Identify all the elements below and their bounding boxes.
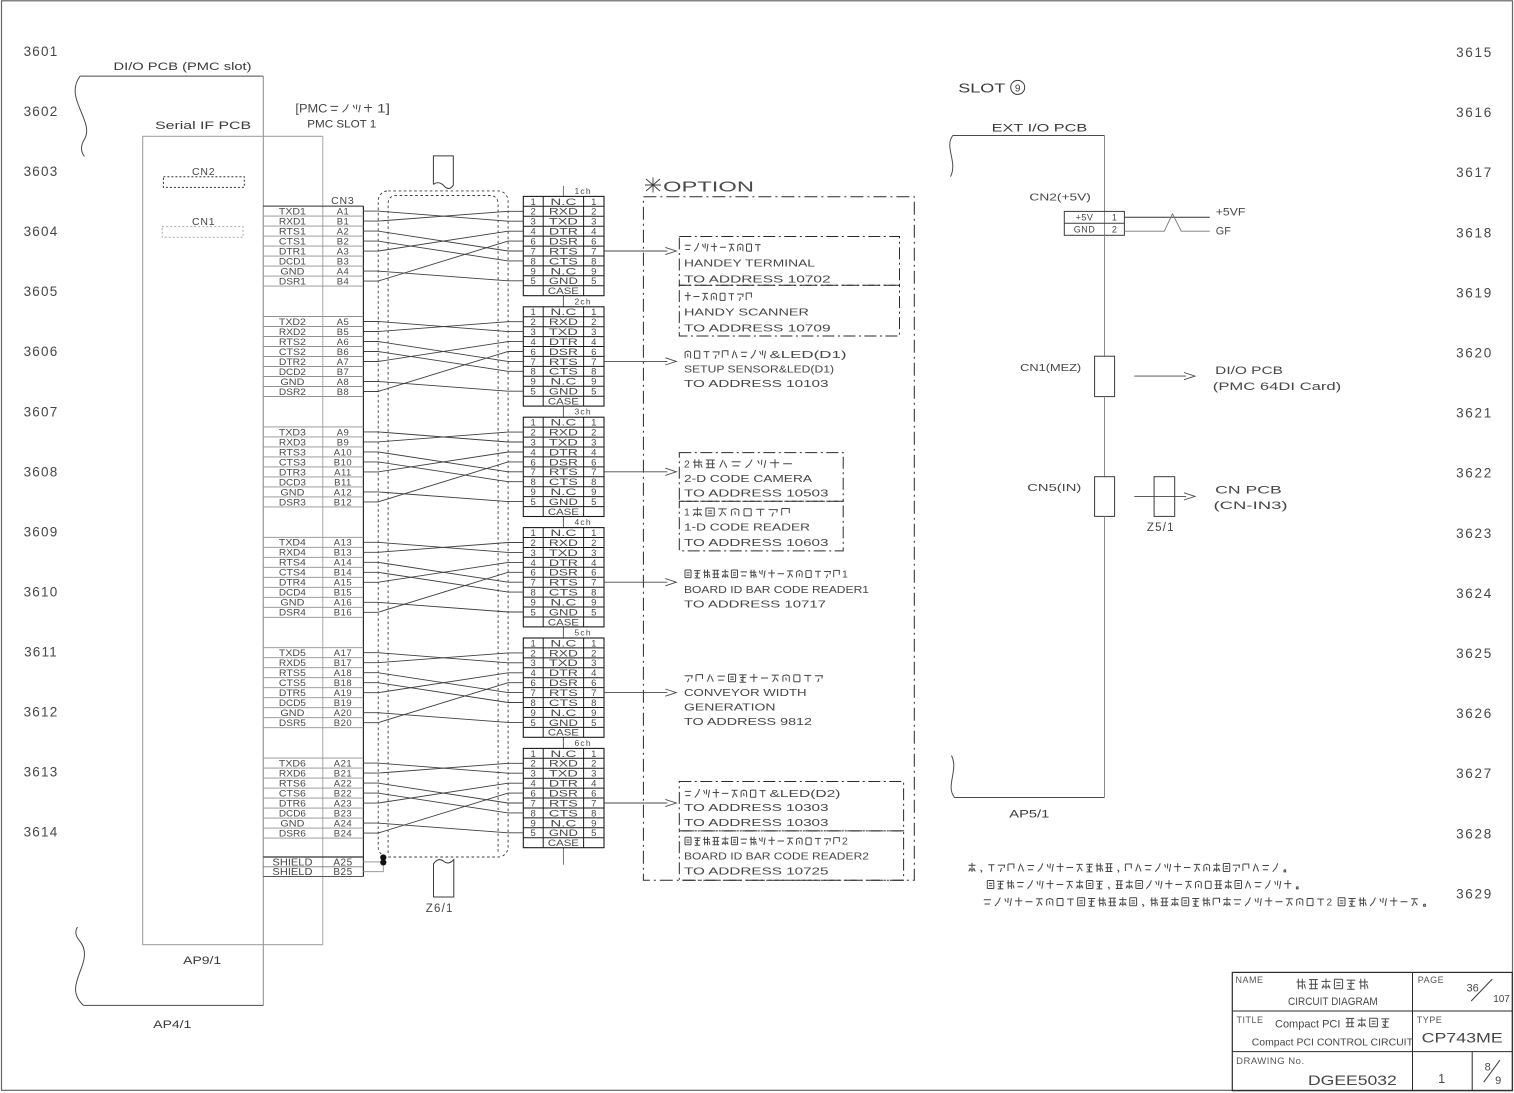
svg-text:3620: 3620 <box>1456 346 1493 361</box>
wire DTR6 to 6ch pin 4 <box>363 783 523 803</box>
svg-text:2: 2 <box>684 458 690 470</box>
svg-text:1: 1 <box>1438 1072 1445 1086</box>
wire TXD5 to 5ch pin 3 <box>363 653 523 663</box>
svg-text:2: 2 <box>1112 224 1117 234</box>
svg-text:+5V: +5V <box>1076 213 1094 223</box>
svg-text:B12: B12 <box>334 497 352 508</box>
option label SETUP SENSOR&LED(D1) (address 10103) <box>684 349 847 390</box>
wire GND to 3ch pin 5 <box>363 492 523 502</box>
svg-text:SLOT: SLOT <box>958 82 1006 96</box>
svg-text:5: 5 <box>591 387 596 398</box>
svg-text:&LED(D1): &LED(D1) <box>770 349 847 361</box>
svg-text:3603: 3603 <box>24 164 59 179</box>
svg-text:3623: 3623 <box>1456 526 1493 541</box>
svg-text:DSR6: DSR6 <box>279 829 306 840</box>
svg-text:HANDEY TERMINAL: HANDEY TERMINAL <box>684 258 815 270</box>
wire RXD2 to 2ch pin 2 <box>363 322 523 332</box>
wire CTS2 to 2ch pin 8 <box>363 352 523 372</box>
connector CN2(+5V) on EXT I/O PCB <box>1029 192 1124 236</box>
svg-text:DSR3: DSR3 <box>279 497 306 508</box>
wire RXD4 to 4ch pin 2 <box>363 543 523 553</box>
svg-text:5: 5 <box>531 276 536 287</box>
svg-text:3622: 3622 <box>1456 466 1493 481</box>
svg-text:3608: 3608 <box>24 464 59 479</box>
title block TITLE cell: Compact PCI CONTROL CIRCUIT <box>1237 1015 1414 1048</box>
svg-text:3614: 3614 <box>24 825 59 840</box>
svg-text:3617: 3617 <box>1456 165 1493 180</box>
wire DTR2 to 2ch pin 4 <box>363 342 523 362</box>
svg-text:Z6/1: Z6/1 <box>426 903 454 915</box>
svg-text:3609: 3609 <box>24 524 59 539</box>
cable bundle (dashed) between CN3 and channel connectors <box>378 191 508 857</box>
connector 6ch (D-sub 9pin) <box>523 738 604 865</box>
ferrite Z5/1 <box>1147 477 1175 534</box>
connector CN1 (Serial IF PCB) <box>162 216 243 237</box>
wire DSR1 to 1ch pin 6 <box>363 241 523 281</box>
option box HANDEY TERMINAL (address 10702) <box>679 237 899 286</box>
board EXT I/O PCB outline AP5/1 <box>950 123 1105 821</box>
board DI/O PCB (PMC slot) outline AP4/1 <box>75 61 263 1031</box>
svg-text:OPTION: OPTION <box>663 179 754 196</box>
label CN PCB (CN-IN3) <box>1214 484 1288 512</box>
svg-text:TO ADDRESS 10725: TO ADDRESS 10725 <box>684 866 829 878</box>
svg-text:1: 1 <box>1112 213 1117 223</box>
svg-text:TO ADDRESS 10503: TO ADDRESS 10503 <box>684 488 829 500</box>
svg-text:1]: 1] <box>377 104 390 116</box>
svg-text:3607: 3607 <box>24 404 59 419</box>
wire 2ch to option (arrow) <box>604 358 676 365</box>
svg-text:Z5/1: Z5/1 <box>1147 522 1175 534</box>
svg-text:3616: 3616 <box>1456 105 1493 120</box>
svg-text:TO ADDRESS 10702: TO ADDRESS 10702 <box>684 274 831 286</box>
svg-text:CN2(+5V): CN2(+5V) <box>1029 192 1091 204</box>
svg-text:5: 5 <box>531 718 536 729</box>
svg-text:Compact PCI: Compact PCI <box>1275 1019 1340 1031</box>
title block PAGE cell: 36/107 <box>1418 975 1511 1005</box>
wire DTR5 to 5ch pin 4 <box>363 673 523 693</box>
wire DTR3 to 3ch pin 4 <box>363 452 523 472</box>
wire DTR1 to 1ch pin 4 <box>363 231 523 251</box>
svg-text:DI/O PCB (PMC slot): DI/O PCB (PMC slot) <box>114 61 252 73</box>
svg-text:5: 5 <box>591 276 596 287</box>
wire 1ch to option (arrow) <box>604 247 676 254</box>
svg-text:3604: 3604 <box>24 224 59 239</box>
wire DSR3 to 3ch pin 6 <box>363 462 523 502</box>
svg-text:TYPE: TYPE <box>1417 1015 1443 1025</box>
CN3 pin rows groups 1-6 (TXD/RXD/RTS/CTS/DTR/DCD/GND/DSR, pins A1-B24) <box>263 207 363 840</box>
wire DSR6 to 6ch pin 6 <box>363 793 523 833</box>
svg-text:DSR2: DSR2 <box>279 387 306 398</box>
wire CTS6 to 6ch pin 8 <box>363 793 523 813</box>
wire 4ch to option (arrow) <box>604 579 676 586</box>
svg-text:5: 5 <box>531 497 536 508</box>
svg-text:DI/O PCB: DI/O PCB <box>1215 365 1283 377</box>
svg-text:3626: 3626 <box>1456 706 1493 721</box>
connector 3ch (D-sub 9pin) <box>523 407 604 528</box>
zone number column left 3601-3614 <box>24 44 59 840</box>
wire TXD1 to 1ch pin 3 <box>363 211 523 221</box>
svg-text:DSR5: DSR5 <box>279 718 306 729</box>
svg-text:3615: 3615 <box>1456 45 1493 60</box>
svg-text:2-D CODE CAMERA: 2-D CODE CAMERA <box>684 473 812 485</box>
label DI/O PCB (PMC 64DI Card) <box>1213 365 1341 393</box>
svg-text:B4: B4 <box>337 277 350 288</box>
wire arrow CN5 to CN PCB <box>1134 493 1195 500</box>
wire GND to 6ch pin 5 <box>363 823 523 833</box>
label PMC SLOT 1 <box>295 104 390 131</box>
svg-text:2ch: 2ch <box>575 296 592 306</box>
label SLOT 9 <box>958 80 1024 95</box>
svg-text:+5VF: +5VF <box>1216 206 1246 218</box>
bus segment CN5-bottom <box>1104 516 1106 797</box>
connector CN5(IN) <box>1027 477 1114 517</box>
option box 1-D CODE READER (address 10603) <box>679 501 843 551</box>
svg-text:6ch: 6ch <box>575 738 592 748</box>
OPTION group box (dash-dot) <box>643 178 914 881</box>
svg-text:DSR1: DSR1 <box>279 277 306 288</box>
title block <box>1232 972 1512 1090</box>
wire TXD6 to 6ch pin 3 <box>363 763 523 773</box>
svg-text:5: 5 <box>531 387 536 398</box>
wire GND to 4ch pin 5 <box>363 602 523 612</box>
svg-text:TO ADDRESS 9812: TO ADDRESS 9812 <box>684 716 812 728</box>
svg-text:4ch: 4ch <box>575 517 592 527</box>
svg-text:5: 5 <box>531 607 536 618</box>
svg-text:107: 107 <box>1493 994 1510 1005</box>
svg-text:3610: 3610 <box>24 584 59 599</box>
wire SHIELD B25 to cable shield <box>363 862 383 872</box>
svg-text:HANDY SCANNER: HANDY SCANNER <box>684 307 810 319</box>
wire 6ch to option (arrow) <box>604 799 676 806</box>
svg-text:CIRCUIT DIAGRAM: CIRCUIT DIAGRAM <box>1288 996 1378 1008</box>
svg-text:3619: 3619 <box>1456 285 1493 300</box>
svg-text:BOARD ID BAR CODE READER2: BOARD ID BAR CODE READER2 <box>684 851 869 863</box>
svg-text:1ch: 1ch <box>575 186 592 196</box>
connector CN2 (Serial IF PCB) <box>163 166 244 187</box>
wire CTS5 to 5ch pin 8 <box>363 683 523 703</box>
svg-text:2: 2 <box>842 836 848 848</box>
wire GND pin2 to GF with fuse/filter symbol <box>1124 214 1209 231</box>
option label BOARD ID BAR CODE READER1 (address 10717) <box>684 568 869 610</box>
svg-text:Compact PCI CONTROL CIRCUIT: Compact PCI CONTROL CIRCUIT <box>1252 1036 1414 1048</box>
board Serial IF PCB AP9/1 <box>143 120 323 967</box>
cable sheet symbol top <box>433 156 453 189</box>
connector CN1(MEZ) <box>1020 356 1114 396</box>
svg-text:9: 9 <box>1015 83 1021 94</box>
wire 5ch to option (arrow) <box>604 689 676 696</box>
svg-text:36: 36 <box>1467 983 1479 995</box>
wire GND to 1ch pin 5 <box>363 271 523 281</box>
title block DRAWING No. cell: DGEE5032 <box>1236 1056 1397 1088</box>
svg-text:B8: B8 <box>337 387 350 398</box>
svg-text:TO ADDRESS 10303: TO ADDRESS 10303 <box>684 817 829 829</box>
wire arrow CN1 to DI/O PCB <box>1134 373 1195 380</box>
svg-text:5: 5 <box>591 718 596 729</box>
wire DTR4 to 4ch pin 4 <box>363 562 523 582</box>
wire TXD3 to 3ch pin 3 <box>363 432 523 442</box>
svg-text:1: 1 <box>684 507 690 519</box>
svg-text:B25: B25 <box>333 867 352 878</box>
wire RTS3 to 3ch pin 7 <box>363 452 523 472</box>
wire DSR5 to 5ch pin 6 <box>363 683 523 723</box>
wire CTS3 to 3ch pin 8 <box>363 462 523 482</box>
wire GND to 5ch pin 5 <box>363 713 523 723</box>
EXT I/O PCB internal bus line <box>1104 235 1106 356</box>
option box SETUP SENSOR&LED(D2) (address 10303) <box>679 782 903 831</box>
title block sheet cell: 8/9 <box>1484 1060 1502 1087</box>
option box HANDY SCANNER (address 10709) <box>679 285 899 336</box>
title block NAME cell: CIRCUIT DIAGRAM <box>1236 975 1378 1008</box>
svg-text:1: 1 <box>842 568 848 580</box>
svg-text:3611: 3611 <box>24 645 58 660</box>
svg-text:5: 5 <box>531 828 536 839</box>
svg-text:3602: 3602 <box>24 104 59 119</box>
svg-text:3625: 3625 <box>1456 646 1493 661</box>
svg-text:9: 9 <box>1495 1075 1501 1087</box>
svg-text:CN PCB: CN PCB <box>1215 484 1282 496</box>
svg-text:CN5(IN): CN5(IN) <box>1027 482 1081 494</box>
svg-text:5ch: 5ch <box>575 628 592 638</box>
svg-text:3629: 3629 <box>1456 886 1493 901</box>
svg-text:3621: 3621 <box>1456 406 1493 421</box>
svg-text:DRAWING No.: DRAWING No. <box>1236 1056 1304 1067</box>
svg-text:&LED(D2): &LED(D2) <box>770 788 841 800</box>
svg-text:(PMC 64DI Card): (PMC 64DI Card) <box>1213 381 1341 393</box>
wire RXD6 to 6ch pin 2 <box>363 763 523 773</box>
svg-text:PMC SLOT 1: PMC SLOT 1 <box>307 119 376 131</box>
wire RTS1 to 1ch pin 7 <box>363 231 523 251</box>
svg-text:PAGE: PAGE <box>1418 975 1444 985</box>
option label CONVEYOR WIDTH GENERATION (address 9812) <box>684 674 822 728</box>
svg-text:3618: 3618 <box>1456 225 1493 240</box>
wire RTS4 to 4ch pin 7 <box>363 562 523 582</box>
svg-text:8: 8 <box>1485 1061 1491 1073</box>
svg-text:DSR4: DSR4 <box>279 608 306 619</box>
svg-text:3613: 3613 <box>24 765 59 780</box>
wire DSR4 to 4ch pin 6 <box>363 572 523 612</box>
option box 2-D CODE CAMERA (address 10503) <box>679 453 843 502</box>
svg-text:3ch: 3ch <box>575 407 592 417</box>
junction dots cable shield <box>380 854 386 860</box>
cable sheet symbol bottom Z6/1 <box>426 860 454 916</box>
wire DSR2 to 2ch pin 6 <box>363 352 523 392</box>
wire +5V pin1 to +5VF <box>1124 216 1209 218</box>
connector 5ch (D-sub 9pin) <box>523 628 604 749</box>
wire CTS1 to 1ch pin 8 <box>363 241 523 261</box>
svg-text:NAME: NAME <box>1236 975 1264 985</box>
svg-text:BOARD ID BAR CODE READER1: BOARD ID BAR CODE READER1 <box>684 584 869 596</box>
connector 2ch (D-sub 9pin) <box>523 296 604 417</box>
wire RTS2 to 2ch pin 7 <box>363 342 523 362</box>
svg-text:3606: 3606 <box>24 344 59 359</box>
wire RXD3 to 3ch pin 2 <box>363 432 523 442</box>
svg-text:TO ADDRESS 10303: TO ADDRESS 10303 <box>684 802 829 814</box>
svg-text:3605: 3605 <box>24 284 59 299</box>
svg-text:CN1(MEZ): CN1(MEZ) <box>1020 362 1081 374</box>
svg-text:5: 5 <box>591 607 596 618</box>
svg-text:CONVEYOR WIDTH: CONVEYOR WIDTH <box>684 687 807 699</box>
connector 1ch (D-sub 9pin) <box>523 186 604 307</box>
svg-text:(CN-IN3): (CN-IN3) <box>1214 500 1288 512</box>
svg-text:B24: B24 <box>334 829 352 840</box>
CN3 SHIELD pins A25 B25 <box>263 857 363 878</box>
wire TXD4 to 4ch pin 3 <box>363 542 523 552</box>
svg-text:[PMC: [PMC <box>295 104 327 116</box>
svg-text:TO ADDRESS 10103: TO ADDRESS 10103 <box>684 378 829 390</box>
svg-text:SETUP SENSOR&LED(D1): SETUP SENSOR&LED(D1) <box>684 363 834 375</box>
connector 4ch (D-sub 9pin) <box>523 517 604 638</box>
svg-text:EXT I/O PCB: EXT I/O PCB <box>992 123 1088 135</box>
wire RXD1 to 1ch pin 2 <box>363 211 523 221</box>
svg-text:TO ADDRESS 10709: TO ADDRESS 10709 <box>684 323 831 335</box>
svg-text:DGEE5032: DGEE5032 <box>1308 1072 1397 1088</box>
svg-text:GF: GF <box>1216 226 1231 238</box>
svg-text:1-D CODE READER: 1-D CODE READER <box>684 522 811 534</box>
svg-text:SHIELD: SHIELD <box>272 867 312 878</box>
wire TXD2 to 2ch pin 3 <box>363 322 523 332</box>
option box BOARD ID BAR CODE READER2 (address 10725) <box>679 831 903 880</box>
svg-text:Serial IF PCB: Serial IF PCB <box>155 120 251 132</box>
svg-text:3601: 3601 <box>24 44 59 59</box>
svg-text:3624: 3624 <box>1456 586 1493 601</box>
svg-text:5: 5 <box>591 828 596 839</box>
svg-text:B16: B16 <box>334 608 352 619</box>
svg-text:TO ADDRESS 10603: TO ADDRESS 10603 <box>684 537 829 549</box>
svg-text:AP4/1: AP4/1 <box>153 1019 191 1031</box>
svg-text:TO ADDRESS 10717: TO ADDRESS 10717 <box>684 599 826 611</box>
svg-text:3628: 3628 <box>1456 826 1493 841</box>
wire 3ch to option (arrow) <box>604 468 676 475</box>
svg-text:CASE: CASE <box>548 838 579 849</box>
wire RTS5 to 5ch pin 7 <box>363 673 523 693</box>
svg-text:CN3: CN3 <box>331 195 354 207</box>
wire CTS4 to 4ch pin 8 <box>363 572 523 592</box>
connector CN3 (Serial IF PCB, 6ch serial) <box>263 136 363 944</box>
svg-text:GND: GND <box>1074 224 1096 234</box>
wire SHIELD A25 to cable shield <box>363 861 383 863</box>
zone number column right 3615-3629 <box>1456 45 1493 901</box>
wire RXD5 to 5ch pin 2 <box>363 653 523 663</box>
svg-text:CP743ME: CP743ME <box>1422 1031 1503 1046</box>
svg-text:B20: B20 <box>334 718 352 729</box>
svg-text:AP5/1: AP5/1 <box>1009 809 1049 821</box>
bus segment CN1-CN5 <box>1104 397 1106 477</box>
title block TYPE cell: CP743ME <box>1417 1015 1503 1046</box>
wire GND to 2ch pin 5 <box>363 382 523 392</box>
wire RTS6 to 6ch pin 7 <box>363 783 523 803</box>
note text (3 lines, Japanese) <box>969 863 1426 909</box>
svg-text:AP9/1: AP9/1 <box>183 955 221 967</box>
svg-text:2: 2 <box>1327 898 1333 909</box>
svg-text:TITLE: TITLE <box>1237 1015 1264 1025</box>
svg-text:GENERATION: GENERATION <box>684 702 776 714</box>
svg-text:3627: 3627 <box>1456 766 1493 781</box>
svg-text:5: 5 <box>591 497 596 508</box>
svg-text:3612: 3612 <box>24 705 59 720</box>
